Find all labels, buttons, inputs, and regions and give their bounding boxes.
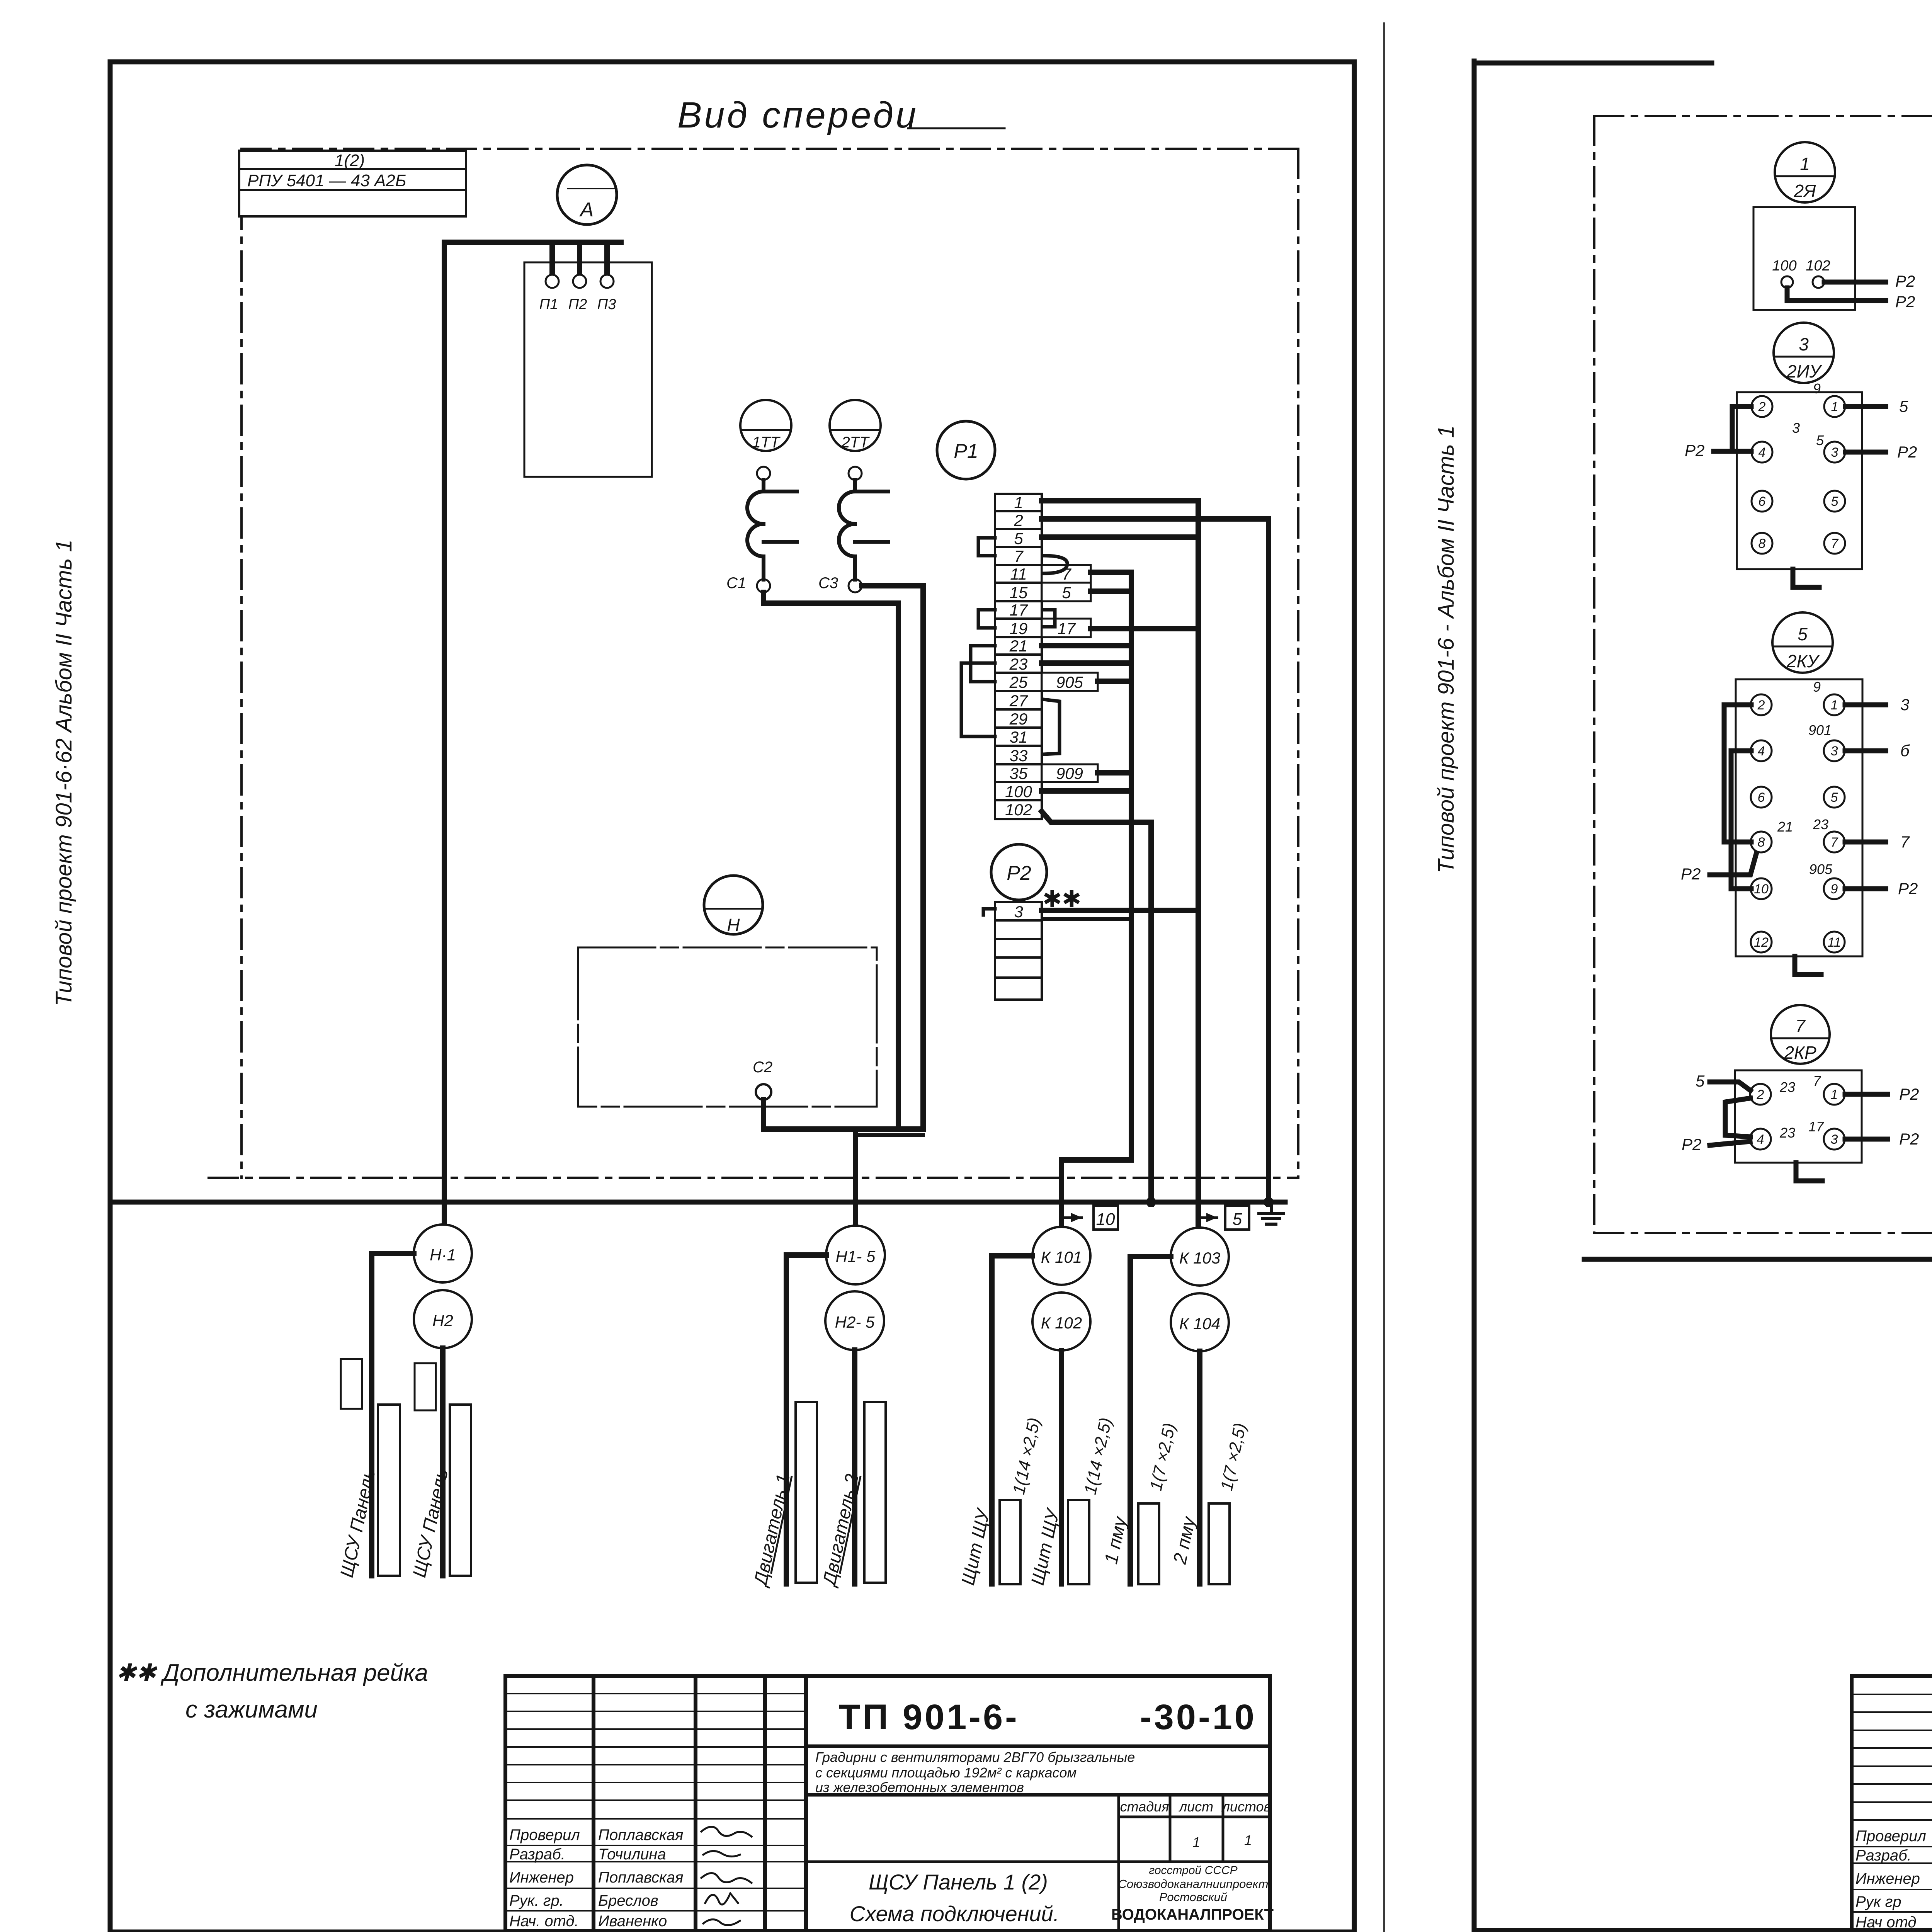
heater symbol Н: [704, 876, 763, 934]
side box 5: [1042, 583, 1091, 601]
rail rect 2пму: [1209, 1503, 1230, 1584]
svg-text:Точилина: Точилина: [598, 1846, 666, 1863]
jumper bracket rows 21-25 left: [971, 646, 995, 682]
terminal П1: [546, 275, 559, 288]
2ТТ coil: [839, 480, 888, 580]
wire: conn5 pin7 to 7: [1845, 840, 1886, 845]
svg-text:Р2: Р2: [1899, 1130, 1919, 1148]
2ТТ terminal: [849, 467, 862, 480]
svg-text:3: 3: [1831, 1132, 1838, 1147]
svg-text:7: 7: [1900, 833, 1910, 851]
svg-text:✱✱ Дополнительная рейка: ✱✱ Дополнительная рейка: [116, 1660, 428, 1686]
svg-text:Иваненко: Иваненко: [598, 1913, 667, 1930]
wire: conn7 pin1 to Р2: [1845, 1092, 1888, 1097]
wire: row21 joins V1: [1042, 643, 1131, 648]
zero bus: [1584, 1257, 1932, 1262]
cable circle Н1-5: [826, 1226, 885, 1284]
connector 1 designator 2Я: [1775, 142, 1835, 202]
wire: conn5 pin3 to б: [1845, 748, 1886, 753]
terminal П3: [600, 275, 614, 288]
rail rect Щит ЩУ 2: [1068, 1500, 1089, 1584]
ground symbol on bus: [1259, 1202, 1284, 1224]
wire: meter bus: [444, 242, 621, 1226]
svg-text:Союзводоканалниипроект: Союзводоканалниипроект: [1118, 1877, 1269, 1891]
svg-text:ЩСУ Панель: ЩСУ Панель: [409, 1467, 452, 1579]
svg-text:23: 23: [1009, 655, 1028, 673]
svg-text:12: 12: [1754, 935, 1769, 950]
conn5 jumper 2-8: [1724, 705, 1751, 842]
svg-text:Щит ЩУ: Щит ЩУ: [1027, 1506, 1064, 1587]
svg-text:Р2: Р2: [1685, 441, 1704, 459]
connector 7 pins: [1750, 1084, 1845, 1150]
svg-text:2 пму: 2 пму: [1170, 1514, 1200, 1566]
svg-text:2КУ: 2КУ: [1786, 651, 1820, 671]
connector 3 pin annotations: [1792, 381, 1824, 448]
svg-text:Градирни с вентиляторами 2В: Градирни с вентиляторами 2ВГ70 брызгальн…: [815, 1749, 1135, 1765]
svg-text:8: 8: [1758, 835, 1765, 850]
connector 7 designator 2КР: [1771, 1005, 1830, 1064]
small rail rect 2: [415, 1363, 436, 1410]
arrow to cable 5: [1198, 1216, 1217, 1219]
tall rail rect 1: [378, 1405, 400, 1576]
svg-text:8: 8: [1759, 536, 1766, 551]
svg-text:Р2: Р2: [1681, 865, 1701, 883]
cable circle Н2-5: [825, 1291, 884, 1350]
enclosure dash-dot bottom: [209, 1177, 1298, 1179]
svg-text:ЩСУ Панель 1 (2): ЩСУ Панель 1 (2): [869, 1870, 1048, 1894]
svg-text:1: 1: [1014, 493, 1023, 512]
wire: box905 joins V1: [1098, 679, 1131, 684]
Р2 row3 left hook: [983, 909, 995, 915]
svg-text:19: 19: [1010, 619, 1028, 638]
conn5 ground hook: [1795, 956, 1821, 975]
svg-text:с секциями площадью 192м²: с секциями площадью 192м² с каркасом: [815, 1765, 1077, 1781]
connector 5 pins left 2..12: [1751, 694, 1772, 952]
connector 5 pins right 1..11: [1824, 694, 1845, 952]
connector 5 body: [1736, 679, 1862, 956]
wire: conn7 pin3 to Р2: [1845, 1137, 1888, 1142]
sheet frame right: [1352, 62, 1357, 1932]
wire: box17 joins V3: [1091, 626, 1198, 631]
wire: conn3 pin3 to Р2: [1845, 450, 1886, 455]
svg-text:1(14 ×2,5): 1(14 ×2,5): [1081, 1416, 1116, 1496]
jumper bracket rows 5-7 left: [961, 538, 1067, 754]
svg-text:Разраб.: Разраб.: [1855, 1847, 1912, 1864]
svg-text:с зажимами: с зажимами: [185, 1696, 318, 1723]
svg-text:31: 31: [1010, 728, 1028, 746]
wire: junction pair segment: [855, 1133, 923, 1137]
jumper bracket rows 23-31 left: [961, 663, 995, 736]
svg-text:9: 9: [1831, 882, 1838, 896]
wire: С2 drop to junction: [764, 1100, 923, 1129]
svg-text:Нач. отд.: Нач. отд.: [509, 1913, 579, 1930]
cable circle Н1: [414, 1225, 472, 1282]
svg-text:5: 5: [1233, 1210, 1242, 1229]
cable circle Н2: [414, 1290, 472, 1348]
svg-text:1: 1: [1831, 1087, 1838, 1102]
svg-text:7: 7: [1813, 1073, 1821, 1089]
1ТТ terminal: [757, 467, 770, 480]
svg-text:5: 5: [1696, 1072, 1705, 1090]
svg-text:2: 2: [1757, 698, 1765, 713]
svg-text:К 104: К 104: [1179, 1315, 1221, 1333]
junction V2 on bus: [1146, 1197, 1156, 1207]
wire: Н2 drop: [440, 1348, 446, 1576]
svg-text:2КР: 2КР: [1784, 1043, 1816, 1063]
wire: V1 jog to К101 feed: [1061, 1160, 1131, 1227]
svg-text:1: 1: [1800, 154, 1810, 174]
svg-text:1(2): 1(2): [335, 151, 365, 170]
wire: row23 joins V1: [1042, 660, 1131, 666]
svg-text:7: 7: [1831, 536, 1839, 551]
cable circle К103: [1171, 1228, 1229, 1286]
wire: row5 joins V3: [1042, 534, 1198, 540]
svg-text:стадия: стадия: [1120, 1799, 1169, 1815]
svg-text:П3: П3: [597, 296, 616, 313]
svg-text:17: 17: [1010, 601, 1028, 619]
svg-text:25: 25: [1009, 673, 1028, 691]
terminal П2: [573, 275, 586, 288]
enclosure dash-dot top: [209, 149, 1298, 1178]
sheet frame top: [110, 60, 1354, 65]
terminal strip Р1 designator: [937, 421, 995, 479]
cable circle К104: [1171, 1293, 1229, 1351]
svg-text:23: 23: [1813, 816, 1828, 832]
svg-text:23: 23: [1779, 1079, 1795, 1095]
svg-text:С2: С2: [753, 1059, 772, 1076]
svg-text:Р2: Р2: [1898, 879, 1918, 898]
svg-text:1ТТ: 1ТТ: [752, 434, 781, 451]
svg-text:5: 5: [1831, 494, 1838, 509]
svg-text:Поплавская: Поплавская: [598, 1869, 684, 1886]
svg-text:С1: С1: [726, 575, 746, 592]
svg-text:4: 4: [1759, 445, 1766, 460]
svg-text:1: 1: [1831, 400, 1838, 414]
svg-text:5: 5: [1798, 624, 1808, 644]
svg-text:Р2: Р2: [1895, 272, 1915, 290]
jumper bracket rows 17-19 left: [978, 610, 995, 628]
svg-text:9: 9: [1813, 381, 1821, 396]
svg-text:Р2: Р2: [1899, 1085, 1919, 1103]
wire: К102 drop: [1059, 1350, 1064, 1584]
enclosure dash-dot right sheet: [1594, 116, 1932, 1233]
svg-text:Р2: Р2: [1895, 293, 1915, 311]
svg-text:15: 15: [1010, 583, 1028, 602]
conn3 ground hook: [1793, 569, 1819, 587]
wire: drop to Н1-5: [853, 1129, 858, 1226]
svg-text:27: 27: [1009, 692, 1028, 710]
connector 3 pins right 1,3,5,7: [1824, 396, 1845, 554]
wire: К101 left drop: [992, 1256, 1032, 1584]
connector 7 pin annotations: [1779, 1073, 1825, 1141]
enclosure dash-dot right: [1297, 149, 1299, 1178]
svg-text:Р2: Р2: [1682, 1135, 1701, 1153]
svg-text:6: 6: [1759, 494, 1766, 509]
sheet frame left: [110, 23, 1384, 1932]
svg-text:33: 33: [1010, 747, 1028, 765]
svg-text:Нач отд: Нач отд: [1855, 1914, 1917, 1931]
left title block names: [509, 1827, 684, 1930]
enclosure dash-dot left: [240, 149, 243, 1178]
rail rect Двигатель 1: [796, 1402, 817, 1583]
wire: conn5 pin1 to 3: [1845, 702, 1886, 707]
terminal strip Р2 body: [995, 902, 1042, 1000]
2ТТ terminal С3: [849, 579, 862, 592]
conn7 jumper 2-4: [1725, 1098, 1750, 1137]
svg-text:Р2: Р2: [1007, 862, 1031, 884]
svg-text:А: А: [579, 199, 594, 221]
svg-text:1(7 ×2,5): 1(7 ×2,5): [1217, 1421, 1250, 1492]
svg-text:3: 3: [1831, 744, 1838, 759]
svg-text:21: 21: [1009, 637, 1028, 655]
wire: box909 joins V1: [1098, 770, 1131, 776]
right title block outer: [1852, 1676, 1932, 1932]
svg-text:17: 17: [1808, 1119, 1825, 1134]
svg-text:Типовой проект 901-6 -: Типовой проект 901-6 - Альбом II Часть 1: [1434, 425, 1459, 873]
junction V4 on bus: [1264, 1197, 1274, 1207]
right title block thin rows: [1852, 1694, 1932, 1912]
svg-text:35: 35: [1010, 764, 1028, 782]
svg-text:Н: Н: [727, 915, 740, 935]
right sheet frame bottom: [1474, 1928, 1932, 1932]
svg-text:Рук. гр.: Рук. гр.: [509, 1892, 564, 1909]
svg-text:К 102: К 102: [1041, 1314, 1082, 1332]
side box 7: [1042, 565, 1091, 583]
wire: bus stub to terminal П1: [549, 242, 555, 275]
svg-text:1 пму: 1 пму: [1101, 1514, 1131, 1566]
svg-text:909: 909: [1056, 764, 1083, 782]
jumper bracket rows 7-11 right: [1043, 556, 1067, 573]
paper edge line between sheets: [1383, 23, 1385, 1932]
side box 17: [1042, 619, 1091, 637]
wire: Н2-5 drop: [852, 1350, 857, 1584]
svg-text:5: 5: [1899, 397, 1908, 415]
apparatus rectangle: [578, 947, 877, 1107]
arrow to cable 10: [1061, 1216, 1082, 1219]
main earth bus left sheet: [112, 1200, 1285, 1205]
svg-text:лист: лист: [1179, 1799, 1213, 1815]
connector 5 pin annotations: [1777, 679, 1833, 877]
svg-text:3: 3: [1014, 903, 1023, 921]
right sheet frame left: [1474, 61, 1932, 1930]
svg-text:Р1: Р1: [954, 440, 978, 463]
svg-text:ВОДОКАНАЛПРОЕКТ: ВОДОКАНАЛПРОЕКТ: [1111, 1906, 1274, 1923]
svg-text:П2: П2: [568, 296, 587, 313]
small rail rect 1: [341, 1359, 362, 1409]
conn7 ground hook: [1796, 1163, 1822, 1181]
svg-text:Р2: Р2: [1897, 443, 1917, 461]
wire: С3 right then long drop: [862, 586, 923, 1129]
wire: row102 hook to V2: [1042, 811, 1151, 1204]
svg-text:б: б: [1900, 742, 1910, 760]
svg-text:из железобетонных элеме: из железобетонных элементов: [815, 1779, 1024, 1795]
terminal strip Р1 body: [995, 494, 1042, 819]
svg-text:5: 5: [1062, 583, 1071, 602]
wire: Н1 left drop: [372, 1253, 414, 1576]
svg-text:Поплавская: Поплавская: [598, 1827, 684, 1844]
rail rect Двигатель 2: [864, 1402, 886, 1583]
left title org name: [1111, 1864, 1274, 1923]
svg-text:3: 3: [1792, 420, 1800, 436]
svg-text:Ростовский: Ростовский: [1159, 1890, 1227, 1904]
connector 7 body: [1735, 1070, 1862, 1163]
svg-text:905: 905: [1809, 861, 1833, 877]
cable circle К102: [1032, 1293, 1090, 1350]
left title block thin rows: [505, 1694, 806, 1911]
connector 1 body: [1753, 207, 1855, 310]
svg-text:Инженер: Инженер: [1855, 1870, 1920, 1887]
wire: Н1-5 left drop: [786, 1255, 826, 1584]
svg-text:905: 905: [1056, 673, 1083, 691]
wire: conn3 pin1 to 5: [1845, 404, 1886, 409]
wire: row2 to V4: [1042, 519, 1269, 1204]
terminal strip Р2 designator: [991, 844, 1047, 900]
wire: bus stub to terminal П2: [577, 242, 582, 275]
svg-text:Н·1: Н·1: [430, 1246, 456, 1264]
svg-text:ТП 901-6--30-10: ТП 901-6--30-10: [838, 1697, 1257, 1737]
svg-text:3: 3: [1831, 445, 1838, 460]
svg-text:К 103: К 103: [1179, 1249, 1221, 1267]
label box 1(2) РПУ: [239, 151, 466, 216]
signatures left block: [701, 1827, 752, 1925]
Р1 row labels: [1005, 493, 1032, 819]
svg-text:Проверил: Проверил: [509, 1827, 580, 1844]
svg-text:Н2- 5: Н2- 5: [835, 1313, 875, 1331]
svg-text:С3: С3: [818, 575, 838, 592]
svg-text:1(7 ×2,5): 1(7 ×2,5): [1146, 1421, 1179, 1492]
svg-text:Н1- 5: Н1- 5: [836, 1247, 876, 1265]
side box 905: [1042, 673, 1098, 691]
svg-text:Схема подключений.: Схема подключений.: [850, 1901, 1060, 1926]
svg-text:29: 29: [1009, 710, 1028, 728]
wire: conn1 pin102 to Р2: [1824, 280, 1886, 285]
side box 909: [1042, 764, 1098, 782]
svg-text:2: 2: [1014, 511, 1023, 529]
jumper bracket rows 27-33 right: [1043, 699, 1060, 754]
svg-text:Рук гр: Рук гр: [1855, 1893, 1901, 1910]
svg-text:Типовой проект 901-6·62 Альбо: Типовой проект 901-6·62 Альбом II Часть …: [51, 539, 77, 1006]
wire: К103 left drop: [1130, 1257, 1171, 1584]
svg-text:4: 4: [1758, 744, 1765, 759]
svg-text:2ИУ: 2ИУ: [1786, 361, 1822, 381]
svg-text:10: 10: [1754, 882, 1769, 896]
wire: С1 down then right then long drop: [764, 592, 898, 1129]
svg-text:2: 2: [1757, 1087, 1764, 1102]
left title main number box: [806, 1745, 1270, 1748]
svg-text:4: 4: [1757, 1132, 1764, 1147]
svg-text:3: 3: [1799, 334, 1809, 354]
svg-text:Проверил: Проверил: [1855, 1828, 1926, 1845]
svg-text:7: 7: [1014, 547, 1024, 565]
svg-text:Вид спереди: Вид спереди: [677, 95, 918, 136]
svg-text:23: 23: [1779, 1125, 1795, 1141]
right sheet frame top (partial): [1474, 61, 1712, 66]
wire: box7 to V1: [1091, 572, 1131, 1160]
motor terminal box: [524, 262, 652, 477]
wire: Р2 row3 lower pair to V1: [1045, 917, 1131, 921]
wire: conn1 pin100 to Р2: [1787, 288, 1886, 301]
tall rail rect 2: [450, 1405, 471, 1576]
svg-text:Н2: Н2: [432, 1311, 453, 1330]
left title description: [806, 1793, 1270, 1797]
current transformer 1ТТ head: [740, 400, 791, 451]
svg-text:17: 17: [1058, 619, 1076, 638]
svg-text:2ТТ: 2ТТ: [841, 434, 870, 451]
left title stage table: [806, 1795, 1270, 1931]
svg-text:21: 21: [1777, 819, 1793, 835]
connector 3 body: [1737, 392, 1862, 569]
svg-text:7: 7: [1795, 1016, 1806, 1036]
current transformer 2ТТ head: [830, 400, 881, 451]
wire: Р2 row3 to V3: [1042, 908, 1195, 913]
svg-text:П1: П1: [539, 296, 558, 313]
wire: К104 drop: [1197, 1351, 1202, 1584]
right title block names: [1855, 1828, 1932, 1931]
svg-text:11: 11: [1010, 565, 1027, 583]
svg-text:3: 3: [1900, 696, 1909, 714]
rail rect Щит ЩУ 1: [1000, 1500, 1020, 1584]
rail rect 1пму: [1138, 1503, 1159, 1584]
ammeter A: [557, 165, 617, 224]
svg-text:2: 2: [1758, 400, 1766, 414]
svg-text:6: 6: [1758, 790, 1765, 805]
wire: row100 joins V1: [1042, 788, 1131, 794]
svg-text:1: 1: [1192, 1834, 1200, 1850]
connector 3 designator 2ИУ: [1774, 323, 1834, 383]
svg-text:1: 1: [1831, 698, 1838, 713]
svg-text:К 101: К 101: [1041, 1248, 1082, 1266]
svg-text:7: 7: [1831, 835, 1838, 850]
svg-text:11: 11: [1827, 935, 1841, 950]
svg-text:Разраб.: Разраб.: [509, 1846, 565, 1863]
connector 5 designator 2КУ: [1772, 612, 1833, 673]
svg-text:901: 901: [1808, 722, 1832, 738]
connector 3 pins left 2,4,6,8: [1752, 396, 1772, 554]
wire: row1 to V3: [1042, 501, 1269, 1252]
svg-text:100: 100: [1772, 258, 1796, 274]
1ТТ terminal С1: [757, 579, 770, 592]
svg-text:Щит ЩУ: Щит ЩУ: [958, 1506, 994, 1587]
wire: conn5 pin9 to Р2: [1845, 886, 1886, 891]
left title block outer: [505, 1676, 1270, 1931]
svg-text:1: 1: [1244, 1832, 1252, 1848]
sheet frame bottom: [110, 1930, 1354, 1932]
left title object name: [850, 1870, 1060, 1926]
svg-text:100: 100: [1005, 782, 1032, 801]
svg-text:102: 102: [1806, 258, 1830, 274]
svg-text:9: 9: [1813, 679, 1821, 695]
svg-text:5: 5: [1816, 432, 1824, 448]
svg-text:2Я: 2Я: [1794, 181, 1816, 201]
svg-text:Инженер: Инженер: [509, 1869, 574, 1886]
svg-text:листов: листов: [1221, 1799, 1271, 1815]
svg-text:102: 102: [1005, 801, 1032, 819]
cable circle К101: [1032, 1227, 1090, 1285]
svg-text:РПУ 5401 — 43 А2Б: РПУ 5401 — 43 А2Б: [247, 171, 406, 190]
svg-text:10: 10: [1096, 1210, 1115, 1229]
1ТТ coil: [747, 480, 797, 580]
conn5 jumper 4-10: [1731, 751, 1751, 889]
svg-text:госстрой СССР: госстрой СССР: [1149, 1864, 1237, 1877]
svg-text:5: 5: [1014, 529, 1023, 548]
svg-text:1(14 ×2,5): 1(14 ×2,5): [1009, 1416, 1044, 1496]
jumper bracket rows 17-19 right: [1043, 610, 1055, 627]
svg-text:5: 5: [1831, 790, 1838, 805]
wire: box5 joins V1: [1091, 588, 1131, 594]
wire: bus stub to terminal П3: [604, 242, 610, 275]
wire: long drop from bus to Н1: [442, 242, 447, 1226]
svg-text:Бреслов: Бреслов: [598, 1892, 658, 1909]
